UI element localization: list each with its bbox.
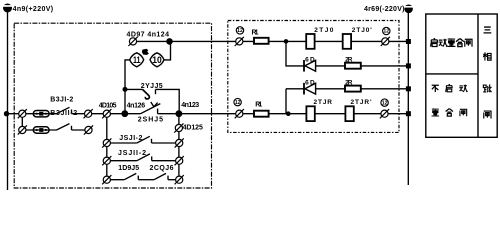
svg-text:4D125: 4D125 <box>183 124 203 131</box>
svg-text:6D: 6D <box>305 57 315 64</box>
svg-text:12: 12 <box>235 100 241 106</box>
svg-text:B3JI-2: B3JI-2 <box>50 97 73 104</box>
svg-text:4r69(-220V): 4r69(-220V) <box>364 6 405 13</box>
svg-text:12: 12 <box>382 100 388 106</box>
svg-text:4D97 4n124: 4D97 4n124 <box>127 31 170 38</box>
svg-text:10: 10 <box>152 55 162 65</box>
svg-text:12: 12 <box>383 29 389 35</box>
svg-text:JSJI-2: JSJI-2 <box>119 135 142 142</box>
svg-text:1D9J5: 1D9J5 <box>118 165 139 172</box>
svg-text:2R: 2R <box>345 80 353 87</box>
svg-text:2TJR: 2TJR <box>314 99 333 106</box>
svg-text:4n126: 4n126 <box>127 102 146 109</box>
svg-text:11: 11 <box>133 55 141 65</box>
svg-text:2TJ0': 2TJ0' <box>352 27 372 34</box>
svg-text:2SHJ5: 2SHJ5 <box>138 117 163 124</box>
svg-text:4n123: 4n123 <box>181 102 199 109</box>
svg-text:2CQJ6: 2CQJ6 <box>150 165 174 172</box>
svg-text:2YJJ5: 2YJJ5 <box>141 83 163 90</box>
svg-text:2TJ0: 2TJ0 <box>314 27 334 34</box>
svg-text:B3JII-2: B3JII-2 <box>50 110 77 117</box>
svg-text:2R: 2R <box>345 57 353 64</box>
svg-text:2TJR': 2TJR' <box>351 99 372 106</box>
svg-text:4D105: 4D105 <box>99 102 117 109</box>
svg-text:6D: 6D <box>305 80 315 87</box>
svg-text:R1: R1 <box>252 30 259 37</box>
svg-text:4n9(+220V): 4n9(+220V) <box>13 6 54 13</box>
svg-text:12: 12 <box>237 28 243 34</box>
svg-text:JSJII-2: JSJII-2 <box>118 150 146 157</box>
svg-text:R1: R1 <box>255 101 262 108</box>
